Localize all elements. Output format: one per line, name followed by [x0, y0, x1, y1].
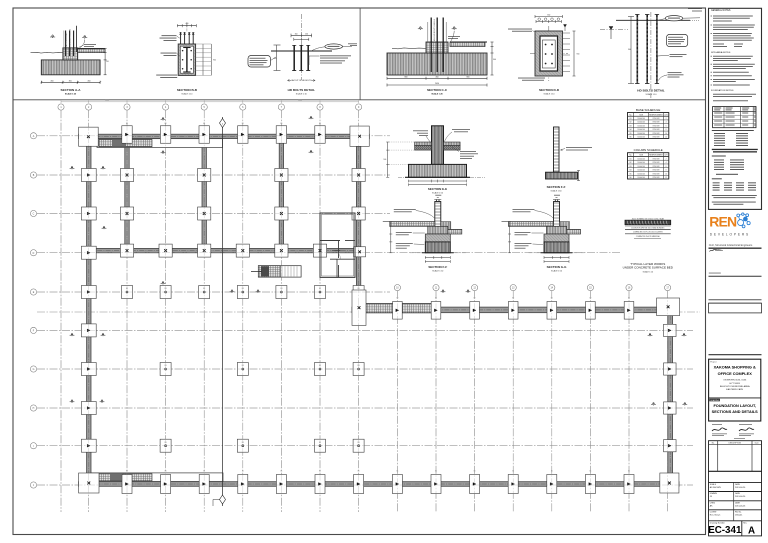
rebar hatch detail bottom-left wall — [91, 473, 223, 482]
REN developers logo — [709, 213, 750, 237]
svg-text:DRAWING: DRAWING — [710, 399, 720, 402]
svg-text:2013-04-26: 2013-04-26 — [735, 496, 746, 498]
svg-text:1500x1500: 1500x1500 — [637, 122, 645, 124]
svg-text:DESCRIPTION: DESCRIPTION — [729, 442, 742, 444]
top wall corner pad at grid 9 — [350, 126, 369, 146]
svg-text:5250: 5250 — [105, 100, 109, 102]
svg-text:UNDER CONCRETE SURFACE BED: UNDER CONCRETE SURFACE BED — [623, 266, 674, 270]
svg-text:8Y16 B/W: 8Y16 B/W — [653, 118, 660, 120]
svg-text:CHKD: CHKD — [710, 502, 716, 504]
interior horizontal wall pads row D — [120, 244, 365, 257]
svg-text:1500x1500: 1500x1500 — [637, 166, 645, 168]
svg-text:B5: B5 — [630, 133, 632, 135]
svg-text:DATE: DATE — [735, 492, 741, 495]
svg-text:M24 HD BOLTS 600 LG: M24 HD BOLTS 600 LG — [434, 18, 436, 41]
svg-text:150: 150 — [295, 33, 298, 35]
svg-text:8Y16 B/W: 8Y16 B/W — [653, 166, 660, 168]
section B-B detail — [156, 23, 216, 96]
svg-text:12: 12 — [665, 177, 667, 179]
column schedule table — [628, 148, 669, 179]
interior horizontal strip footing row D — [89, 248, 360, 252]
svg-text:8Y16 B/W: 8Y16 B/W — [653, 137, 660, 139]
svg-text:650: 650 — [547, 15, 550, 17]
svg-text:ON ERVEN 3135, 3136: ON ERVEN 3135, 3136 — [723, 380, 747, 382]
section D-D detail — [508, 15, 579, 96]
svg-text:HD BOLTS DETAIL: HD BOLTS DETAIL — [637, 89, 664, 93]
plan vertical grid lines — [61, 110, 668, 512]
divider between detail groups — [359, 8, 361, 100]
svg-text:G: G — [33, 369, 35, 371]
svg-text:1364-41: 1364-41 — [735, 514, 743, 516]
notes concrete mix table — [713, 107, 756, 128]
signature scribbles — [712, 424, 754, 438]
svg-text:10: 10 — [665, 133, 667, 135]
svg-text:1500x1500: 1500x1500 — [637, 118, 645, 120]
svg-text:2013-04-26: 2013-04-26 — [735, 487, 746, 489]
plan grid bubbles mid row (right wing) — [394, 285, 670, 291]
svg-text:SCALE: SCALE — [710, 483, 717, 486]
interior wall pads rows B-C — [120, 169, 365, 221]
svg-text:EASTERN CAPE: EASTERN CAPE — [726, 388, 743, 391]
svg-text:M20 HD BOLTS 450 LG: M20 HD BOLTS 450 LG — [70, 28, 72, 51]
svg-text:SECTION G-G: SECTION G-G — [547, 265, 568, 269]
svg-text:Project: Project — [710, 360, 717, 363]
svg-text:900: 900 — [577, 54, 580, 56]
project title block — [709, 359, 761, 421]
bottom wall corner pad right — [660, 473, 679, 493]
svg-text:SECTION B-B: SECTION B-B — [177, 88, 198, 92]
svg-text:SECTION F-F: SECTION F-F — [547, 185, 566, 189]
svg-text:CAST IN CONC.: CAST IN CONC. — [65, 32, 68, 48]
svg-text:SCALE 1:10: SCALE 1:10 — [543, 93, 555, 96]
svg-text:B1: B1 — [630, 118, 632, 120]
svg-text:SCALE 1:10: SCALE 1:10 — [643, 270, 653, 273]
plan top dimension ticks — [61, 100, 359, 103]
svg-text:2050: 2050 — [435, 83, 439, 85]
svg-text:8Y16 B/W: 8Y16 B/W — [653, 125, 660, 127]
svg-text:8Y16 B/W: 8Y16 B/W — [653, 162, 660, 164]
svg-text:8Y16 B/W: 8Y16 B/W — [653, 170, 660, 172]
left strip footing wall — [87, 134, 91, 486]
top wall pads — [122, 123, 325, 143]
rebar hatch detail top-left wall — [97, 139, 223, 148]
typical layer works detail — [623, 217, 674, 273]
svg-text:Date: Date — [755, 441, 759, 444]
svg-text:SCALE 1:20: SCALE 1:20 — [431, 93, 443, 96]
svg-text:1500x1500: 1500x1500 — [637, 137, 645, 139]
top wall corner pad A1 — [79, 127, 99, 146]
plan grid bubbles left column — [30, 133, 36, 488]
vertical divider before title column — [705, 8, 707, 535]
svg-text:SCALE 1:10: SCALE 1:10 — [296, 93, 308, 96]
svg-text:Ren. Brown: Ren. Brown — [710, 514, 720, 516]
revision table — [709, 441, 762, 472]
svg-text:J: J — [33, 485, 34, 487]
section cut line through plan — [213, 117, 226, 506]
svg-text:800: 800 — [405, 76, 408, 78]
svg-text:REN: REN — [709, 214, 737, 230]
bottom wall pads — [122, 471, 634, 494]
svg-text:Rev.: Rev. — [743, 523, 747, 525]
right wall pads — [664, 324, 677, 452]
top strip footing wall — [79, 134, 370, 138]
svg-text:5250: 5250 — [298, 100, 302, 102]
svg-text:1500x1500: 1500x1500 — [637, 162, 645, 164]
svg-text:HD BOLTS DETAIL: HD BOLTS DETAIL — [288, 88, 315, 92]
svg-text:A: A — [748, 525, 755, 536]
svg-text:1500x1500: 1500x1500 — [637, 170, 645, 172]
svg-text:8Y16 B/W: 8Y16 B/W — [653, 129, 660, 131]
small room / stair core — [320, 213, 355, 277]
interior vertical strip footing x9 — [356, 146, 360, 303]
svg-text:900: 900 — [493, 59, 496, 61]
grid overlay lines — [37, 110, 693, 512]
mid wall pads — [393, 298, 634, 325]
right strip footing wall — [668, 307, 673, 487]
svg-text:1500x1500: 1500x1500 — [637, 177, 645, 179]
svg-text:File No.: File No. — [735, 511, 742, 513]
svg-text:900: 900 — [383, 159, 386, 161]
svg-text:LAYOUT OF HD BOLTS: LAYOUT OF HD BOLTS — [291, 79, 312, 82]
svg-text:1500x1500: 1500x1500 — [637, 173, 645, 175]
svg-text:B4: B4 — [630, 129, 632, 131]
svg-text:SCALE 1:50: SCALE 1:50 — [550, 189, 562, 192]
svg-text:B3: B3 — [630, 125, 632, 127]
svg-text:HYT 59/63: HYT 59/63 — [729, 383, 740, 385]
HD bolts detail 1 — [248, 14, 357, 96]
svg-text:DRAWN: DRAWN — [710, 492, 718, 495]
svg-text:2013-04-26: 2013-04-26 — [735, 505, 746, 507]
svg-text:8Y16 B/W: 8Y16 B/W — [653, 133, 660, 135]
svg-text:DEVELOPERS: DEVELOPERS — [710, 233, 750, 237]
svg-text:1500x1500: 1500x1500 — [637, 133, 645, 135]
svg-text:SCALE 1:50: SCALE 1:50 — [551, 270, 563, 273]
mid wall corner pad grid 9 — [352, 290, 366, 325]
interior vertical strip footing x4 — [202, 139, 206, 249]
rebar hatch detail mid wall — [366, 304, 433, 313]
svg-text:XAKOMA SHOPPING &: XAKOMA SHOPPING & — [714, 366, 756, 370]
svg-text:BASE SCHEDULE: BASE SCHEDULE — [636, 108, 660, 112]
svg-text:1500x1500: 1500x1500 — [637, 158, 645, 160]
bottom strip footing wall — [79, 482, 679, 487]
svg-text:SECTION A-A: SECTION A-A — [61, 88, 82, 92]
isolated pad row E — [122, 286, 365, 299]
svg-text:SCALE 1:50: SCALE 1:50 — [432, 270, 444, 273]
section E-E detail — [383, 126, 485, 195]
section A-A detail — [31, 26, 109, 96]
section F-F upper detail — [546, 127, 593, 192]
plan grid bubbles top row — [58, 104, 362, 110]
svg-text:B4: B4 — [630, 170, 632, 172]
svg-text:1500x1500: 1500x1500 — [637, 129, 645, 131]
section G-G detail — [502, 195, 585, 273]
interior vertical strip footing x3 — [125, 139, 129, 249]
level marker flags in plan — [70, 116, 688, 405]
notes lower text block — [712, 130, 758, 205]
svg-text:10: 10 — [665, 173, 667, 175]
svg-text:GENERAL NOTES: GENERAL NOTES — [711, 9, 731, 12]
divider below top details strip — [13, 99, 706, 101]
svg-text:8Y16 B/W: 8Y16 B/W — [653, 122, 660, 124]
svg-text:12: 12 — [665, 137, 667, 139]
svg-text:EC-341: EC-341 — [708, 525, 742, 536]
svg-text:CLIENT: CLIENT — [710, 511, 718, 513]
svg-text:AS SHOWN: AS SHOWN — [710, 486, 721, 489]
rebar hatch detail interior row D area — [251, 266, 301, 277]
svg-text:450: 450 — [88, 80, 91, 82]
svg-text:SCALE 1:10: SCALE 1:10 — [645, 93, 657, 96]
HD bolts detail 2 — [600, 8, 702, 98]
mid wall corner pad right — [657, 298, 680, 316]
svg-text:8Y16 B/W: 8Y16 B/W — [653, 158, 660, 160]
svg-text:FOUNDATION LAYOUT,: FOUNDATION LAYOUT, — [713, 404, 756, 408]
interior vertical strip footing x5 — [279, 139, 283, 249]
svg-text:BHLICHTO MUNICIPAL AREA: BHLICHTO MUNICIPAL AREA — [720, 385, 750, 388]
title block info rows — [709, 471, 762, 536]
svg-text:Civil, Structural & Electrical: Civil, Structural & Electrical Engineers — [709, 243, 753, 247]
svg-text:B3: B3 — [630, 166, 632, 168]
isolated pads rows G and I — [160, 363, 364, 453]
svg-text:COLUMN SCHEDULE: COLUMN SCHEDULE — [634, 148, 663, 152]
svg-text:SECTION F-F: SECTION F-F — [428, 265, 447, 269]
svg-text:750: 750 — [106, 61, 109, 63]
plan horizontal grid lines — [37, 136, 700, 485]
svg-text:8Y16 B/W: 8Y16 B/W — [653, 177, 660, 179]
section F-F lower detail — [383, 195, 466, 273]
svg-text:REINFORCEMENT: REINFORCEMENT — [649, 114, 663, 116]
svg-text:SECTIONS AND DETAILS: SECTIONS AND DETAILS — [712, 410, 759, 414]
svg-text:B6: B6 — [630, 137, 632, 139]
svg-text:450: 450 — [51, 80, 54, 82]
svg-text:DATE: DATE — [735, 483, 741, 486]
lower rules and consultant box — [709, 273, 762, 355]
svg-text:SECTION C-C: SECTION C-C — [427, 88, 448, 92]
svg-text:FOUNDATION NOTES: FOUNDATION NOTES — [711, 89, 734, 92]
svg-text:800: 800 — [467, 76, 470, 78]
svg-text:8Y16 B/W: 8Y16 B/W — [653, 173, 660, 175]
svg-text:1500x1500: 1500x1500 — [637, 125, 645, 127]
svg-text:SECTION E-E: SECTION E-E — [428, 187, 447, 191]
mid strip footing wall (right wing top) — [352, 307, 679, 313]
svg-text:REINFORCEMENT: REINFORCEMENT — [649, 155, 663, 157]
base schedule table — [628, 108, 669, 139]
svg-text:900: 900 — [628, 49, 631, 51]
svg-text:DATE: DATE — [735, 501, 741, 504]
svg-text:450: 450 — [436, 76, 439, 78]
svg-text:OFFICE COMPLEX: OFFICE COMPLEX — [718, 372, 753, 376]
svg-text:SITE AREA NOTES: SITE AREA NOTES — [711, 51, 731, 54]
svg-text:SIZE: SIZE — [639, 155, 643, 157]
svg-text:SIZE: SIZE — [639, 114, 643, 116]
svg-text:B6: B6 — [630, 177, 632, 179]
left wall pads — [81, 169, 96, 453]
general notes box — [709, 8, 762, 209]
section C-C detail — [387, 18, 496, 96]
svg-text:SCALE 1:20: SCALE 1:20 — [65, 93, 77, 96]
svg-text:B1: B1 — [630, 158, 632, 160]
svg-text:150: 150 — [305, 33, 308, 35]
wall centrelines — [79, 134, 679, 486]
svg-text:300: 300 — [69, 80, 72, 82]
engineers block — [709, 243, 762, 252]
svg-text:B2: B2 — [630, 122, 632, 124]
svg-text:SECTION D-D: SECTION D-D — [539, 88, 560, 92]
drawing number cell — [708, 521, 755, 537]
svg-text:SCALE 1:50: SCALE 1:50 — [432, 192, 444, 195]
svg-text:900: 900 — [213, 60, 216, 62]
svg-text:B2: B2 — [630, 162, 632, 164]
bottom wall corner pad left — [79, 473, 99, 493]
svg-text:SCALE 1:10: SCALE 1:10 — [181, 93, 193, 96]
svg-text:B5: B5 — [630, 173, 632, 175]
